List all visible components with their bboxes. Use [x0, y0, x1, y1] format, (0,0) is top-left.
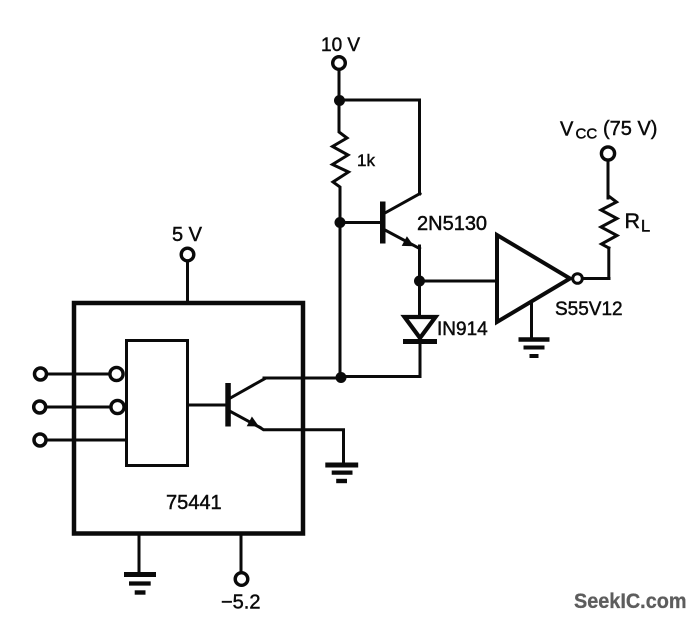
label -5.2	[221, 592, 260, 614]
inner block	[127, 341, 188, 466]
svg-text:1k: 1k	[357, 151, 375, 170]
ground box	[124, 533, 156, 593]
svg-text:5 V: 5 V	[172, 224, 203, 246]
label S55V12	[555, 299, 623, 320]
svg-text:R: R	[625, 209, 641, 233]
svg-text:SeekIC.com: SeekIC.com	[574, 590, 687, 613]
wire emitter out	[260, 428, 344, 464]
svg-text:10 V: 10 V	[321, 35, 360, 56]
node junction collector	[336, 372, 347, 383]
terminal input 2	[34, 401, 46, 413]
resistor RL	[601, 196, 617, 248]
node junction diode top	[414, 276, 425, 287]
IC box 75441	[74, 303, 303, 534]
svg-text:(75 V): (75 V)	[603, 118, 657, 140]
wire	[48, 439, 127, 442]
wire	[339, 99, 420, 102]
inverter U2 S55V12	[497, 235, 582, 322]
svg-text:75441: 75441	[166, 492, 222, 514]
transistor Q2 in 75441	[225, 379, 265, 428]
wire collector out	[264, 377, 341, 380]
svg-text:−5.2: −5.2	[221, 592, 260, 614]
label 75441	[166, 492, 222, 514]
wire	[240, 533, 243, 571]
wire	[607, 162, 610, 199]
label 5 V	[172, 224, 203, 246]
wire	[338, 71, 341, 100]
svg-text:CC: CC	[576, 126, 598, 143]
wire	[583, 277, 609, 280]
pin circle 2	[111, 400, 124, 413]
resistor 1k	[333, 103, 349, 220]
watermark SeekIC.com	[574, 590, 687, 613]
svg-text:S55V12: S55V12	[555, 299, 623, 320]
ground emitter	[325, 465, 358, 481]
wire	[418, 246, 421, 281]
wire	[48, 406, 111, 409]
wire	[186, 263, 189, 304]
label RL	[625, 209, 651, 236]
wire	[341, 375, 420, 378]
wire	[188, 404, 227, 407]
terminal input 3	[34, 434, 46, 446]
node junction 1k top	[334, 95, 345, 106]
wire	[340, 221, 381, 224]
wire	[48, 373, 109, 376]
ground inverter	[519, 303, 550, 356]
terminal 5 V	[181, 248, 194, 261]
wire	[418, 100, 421, 194]
label 10 V	[321, 35, 360, 56]
label 2N5130	[417, 213, 487, 235]
wire	[339, 223, 342, 378]
terminal VCC	[601, 147, 614, 160]
svg-text:2N5130: 2N5130	[417, 213, 487, 235]
svg-text:L: L	[641, 218, 650, 236]
svg-text:V: V	[560, 119, 574, 141]
terminal -5.2	[235, 573, 248, 586]
svg-text:IN914: IN914	[437, 319, 488, 340]
terminal input 1	[35, 368, 47, 380]
label 1k	[357, 151, 375, 170]
wire	[420, 280, 498, 283]
node junction base	[335, 217, 346, 228]
label IN914	[437, 319, 488, 340]
pin circle 1	[110, 367, 123, 380]
transistor Q1 2N5130	[380, 194, 420, 249]
wire	[418, 281, 421, 317]
diode D1 IN914	[403, 317, 437, 377]
terminal 10 V	[333, 57, 346, 70]
wire	[583, 248, 609, 279]
label VCC (75 V)	[560, 118, 657, 143]
